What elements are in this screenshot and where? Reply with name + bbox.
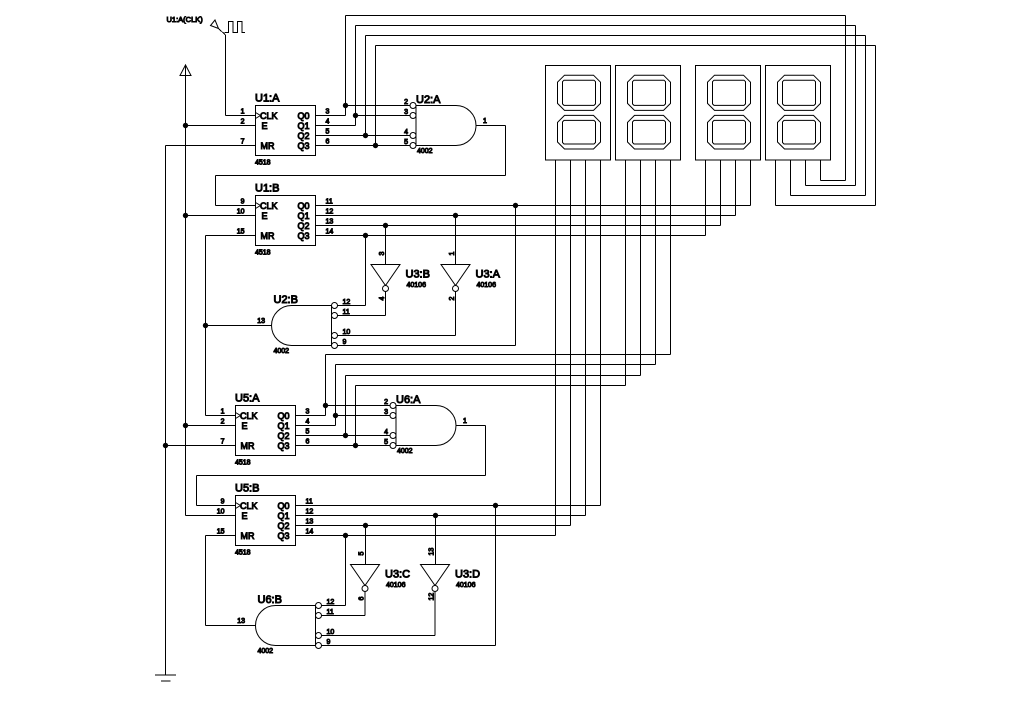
wire U2:B output pin13 <box>206 325 272 327</box>
svg-text:Q1: Q1 <box>278 421 290 431</box>
wire Q1b to U3:A input <box>455 216 457 265</box>
7-segment display 4 body <box>766 66 831 161</box>
svg-text:6: 6 <box>359 597 366 601</box>
wire U1:B MR to U2:B output <box>206 235 256 237</box>
wire U5:A Q2 to U6:A pin4 <box>296 435 391 437</box>
wire U5:A Q1 to U6:A pin3 and display2 <box>296 425 336 427</box>
display 2 seven-segment digit outline <box>628 75 671 110</box>
node U2:B output junction <box>203 323 208 328</box>
svg-text:13: 13 <box>306 519 314 526</box>
wire U5:A Q3 to U6:A pin5 <box>296 445 391 447</box>
svg-text:U3:D: U3:D <box>455 569 480 581</box>
node Q0d junction <box>493 503 498 508</box>
junction power/U1:A E <box>183 123 188 128</box>
wire Q3b to U2:B pin12 <box>365 236 367 306</box>
wire U2:A output pin1 loop to U1:B CLK <box>476 125 506 127</box>
wire U5:B Q0 pin11 to display1 <box>296 505 601 507</box>
svg-text:13: 13 <box>429 548 436 556</box>
svg-text:13: 13 <box>237 618 245 625</box>
svg-text:1: 1 <box>221 409 225 416</box>
svg-text:40106: 40106 <box>456 582 476 589</box>
svg-text:40106: 40106 <box>386 582 406 589</box>
display 3 seven-segment digit outline <box>708 75 751 110</box>
svg-text:U6:B: U6:B <box>258 594 282 606</box>
node Q2a junction <box>363 133 368 138</box>
svg-text:40106: 40106 <box>477 282 497 289</box>
svg-text:13: 13 <box>326 219 334 226</box>
svg-text:9: 9 <box>241 199 245 206</box>
svg-text:Q2: Q2 <box>298 131 310 141</box>
svg-text:10: 10 <box>327 629 335 636</box>
node Q3c junction <box>353 443 358 448</box>
wire U2:B out down to U5:A CLK <box>205 326 207 416</box>
svg-text:E: E <box>262 121 268 131</box>
inverter U3:C 40106 <box>351 565 380 586</box>
svg-text:U5:B: U5:B <box>235 483 259 495</box>
wire U1:A pin E <box>186 125 256 127</box>
inverter U3:B 40106 <box>371 265 400 286</box>
wire U3:D output pin12 to U6:B pin10 <box>434 592 436 636</box>
wire U1:B pin E <box>186 215 256 217</box>
svg-text:4518: 4518 <box>255 250 271 257</box>
svg-text:U1:A(CLK): U1:A(CLK) <box>167 15 204 24</box>
wire U1:B Q1 pin12 to display3 <box>316 215 736 217</box>
svg-text:4: 4 <box>384 429 388 436</box>
wire clock to U1:A CLK <box>219 29 226 36</box>
svg-text:12: 12 <box>326 209 334 216</box>
svg-text:U3:A: U3:A <box>476 269 501 281</box>
wire Q3c up to display2 <box>355 386 357 446</box>
node Q3d junction <box>343 533 348 538</box>
wire U5:B Q2 pin13 to display1 <box>296 525 571 527</box>
svg-text:Q0: Q0 <box>278 411 290 421</box>
wire U5:B Q1 pin12 to display1 <box>296 515 586 517</box>
7-segment display 3 body <box>696 66 761 161</box>
svg-text:MR: MR <box>261 141 275 151</box>
svg-text:CLK: CLK <box>240 411 258 421</box>
svg-text:MR: MR <box>241 531 255 541</box>
node Q1c junction <box>333 413 338 418</box>
svg-text:Q3: Q3 <box>298 141 310 151</box>
svg-text:15: 15 <box>217 529 225 536</box>
wire U1:A pin MR <box>166 145 256 147</box>
power terminal symbol <box>180 65 191 76</box>
svg-text:11: 11 <box>343 309 350 316</box>
wire U1:A Q2 to U2:A pin4 <box>316 135 411 137</box>
display 1 seven-segment digit outline <box>558 75 601 110</box>
svg-text:E: E <box>242 511 248 521</box>
svg-text:11: 11 <box>327 609 334 616</box>
inverter U3:A 40106 <box>441 265 470 286</box>
svg-text:4: 4 <box>306 419 310 426</box>
wire U5:A Q0 to U6:A pin2 and display2 <box>296 415 326 417</box>
node Q0a junction <box>343 103 348 108</box>
svg-text:9: 9 <box>343 339 347 346</box>
node Q2d junction <box>363 523 368 528</box>
svg-text:12: 12 <box>429 593 436 601</box>
wire Q1d to U3:D input <box>435 516 437 565</box>
wire power rail vertical x=185 <box>185 65 187 516</box>
node Q3a junction <box>373 143 378 148</box>
svg-text:MR: MR <box>241 441 255 451</box>
svg-text:1: 1 <box>449 252 456 256</box>
svg-text:4518: 4518 <box>255 160 271 167</box>
svg-text:U1:A: U1:A <box>255 93 280 105</box>
node Q2c junction <box>343 433 348 438</box>
wire U1:B Q2 pin13 to display3 <box>316 225 721 227</box>
wire U1:B Q3 pin14 to display3 <box>316 235 706 237</box>
wire Q1c up to display2 <box>335 365 337 416</box>
svg-text:U3:B: U3:B <box>406 269 430 281</box>
svg-text:2: 2 <box>241 119 245 126</box>
svg-text:9: 9 <box>327 639 331 646</box>
svg-text:2: 2 <box>404 99 408 106</box>
display 4 seven-segment digit outline <box>778 75 821 110</box>
ground rail vertical x=165 <box>165 146 167 676</box>
svg-text:U3:C: U3:C <box>385 569 410 581</box>
svg-text:1: 1 <box>463 418 467 425</box>
svg-text:3: 3 <box>404 109 408 116</box>
wire Q3d to U6:B pin12 <box>345 536 347 606</box>
junction ground rail / U5:A MR <box>163 443 168 448</box>
svg-text:Q0: Q0 <box>278 501 290 511</box>
svg-text:4: 4 <box>326 119 330 126</box>
svg-text:U5:A: U5:A <box>235 393 260 405</box>
svg-text:Q2: Q2 <box>278 521 290 531</box>
node Q1d junction <box>433 513 438 518</box>
node Q2b junction <box>383 223 388 228</box>
wire Q3 rail to display4 <box>375 46 377 146</box>
svg-text:Q3: Q3 <box>298 231 310 241</box>
svg-text:4002: 4002 <box>417 148 433 155</box>
svg-text:3: 3 <box>326 109 330 116</box>
svg-text:4: 4 <box>379 297 386 301</box>
svg-text:Q1: Q1 <box>278 511 290 521</box>
svg-text:15: 15 <box>237 229 245 236</box>
wire U1:A Q1 to U2:A pin3 and rail <box>316 125 356 127</box>
svg-text:10: 10 <box>237 209 245 216</box>
svg-text:3: 3 <box>379 252 386 256</box>
wire U1:A Q3 to U2:A pin5 <box>316 145 411 147</box>
svg-text:Q0: Q0 <box>298 201 310 211</box>
svg-text:CLK: CLK <box>260 111 278 121</box>
wire Q0c up to display2 <box>325 355 327 406</box>
node Q1b junction <box>453 213 458 218</box>
svg-text:Q1: Q1 <box>298 211 310 221</box>
wire U5:B Q3 pin14 to display1 <box>296 535 556 537</box>
svg-text:Q1: Q1 <box>298 121 310 131</box>
wire U6:B output pin13 <box>206 625 256 627</box>
svg-text:9: 9 <box>221 499 225 506</box>
svg-text:12: 12 <box>327 599 335 606</box>
svg-text:5: 5 <box>404 139 408 146</box>
wire U1:B Q0 pin11 to display3 <box>316 205 751 207</box>
wire U1:A Q0 to U2:A pin2 and top rail <box>316 115 346 117</box>
node Q0c junction <box>323 403 328 408</box>
wire U3:B output pin4 to U2:B pin11 <box>385 292 387 316</box>
svg-text:4002: 4002 <box>397 448 413 455</box>
svg-text:11: 11 <box>326 199 333 206</box>
svg-text:5: 5 <box>384 439 388 446</box>
svg-text:12: 12 <box>343 299 351 306</box>
svg-text:Q0: Q0 <box>298 111 310 121</box>
svg-text:1: 1 <box>241 109 245 116</box>
ground symbol <box>155 674 176 676</box>
inverter U3:D 40106 <box>421 565 450 586</box>
svg-text:4518: 4518 <box>235 550 251 557</box>
svg-text:Q3: Q3 <box>278 531 290 541</box>
wire U6:A output pin1 loop to U5:B CLK <box>456 425 486 427</box>
svg-text:U1:B: U1:B <box>255 183 279 195</box>
svg-text:7: 7 <box>241 139 245 146</box>
svg-text:MR: MR <box>261 231 275 241</box>
wire Q2 rail to display4 <box>365 36 367 136</box>
junction power/U1:B E <box>183 213 188 218</box>
svg-text:4002: 4002 <box>274 348 290 355</box>
svg-text:14: 14 <box>326 229 334 236</box>
svg-text:U2:B: U2:B <box>274 294 298 306</box>
junction power/U5:A E <box>183 423 188 428</box>
svg-text:4: 4 <box>404 129 408 136</box>
svg-text:E: E <box>242 421 248 431</box>
svg-text:2: 2 <box>384 399 388 406</box>
svg-text:Q2: Q2 <box>298 221 310 231</box>
wire Q1 rail to display4 <box>355 26 357 116</box>
svg-text:11: 11 <box>306 499 313 506</box>
svg-text:4518: 4518 <box>235 460 251 467</box>
svg-text:2: 2 <box>221 419 225 426</box>
svg-text:1: 1 <box>483 118 487 125</box>
7-segment display 1 body <box>546 66 611 161</box>
wire U3:A output pin2 to U2:B pin10 <box>455 292 457 336</box>
svg-text:CLK: CLK <box>260 201 278 211</box>
svg-text:CLK: CLK <box>240 501 258 511</box>
svg-text:5: 5 <box>359 552 366 556</box>
svg-text:4002: 4002 <box>258 648 274 655</box>
svg-text:Q2: Q2 <box>278 431 290 441</box>
svg-text:E: E <box>262 211 268 221</box>
wire U5:A pin MR <box>166 445 236 447</box>
wire Q2b to U3:B input <box>385 226 387 265</box>
7-segment display 2 body <box>616 66 681 161</box>
svg-text:6: 6 <box>326 139 330 146</box>
node Q1a junction <box>353 113 358 118</box>
svg-text:U6:A: U6:A <box>396 394 421 406</box>
svg-text:14: 14 <box>306 529 314 536</box>
svg-text:2: 2 <box>449 297 456 301</box>
svg-text:3: 3 <box>384 409 388 416</box>
svg-text:6: 6 <box>306 439 310 446</box>
svg-text:12: 12 <box>306 509 314 516</box>
svg-text:10: 10 <box>217 509 225 516</box>
svg-text:7: 7 <box>221 439 225 446</box>
wire Q2d to U3:C input <box>365 526 367 565</box>
wire Q0 rail to display4 <box>345 16 347 106</box>
wire Q0d to U6:B pin9 <box>495 506 497 646</box>
svg-text:3: 3 <box>306 409 310 416</box>
node Q0b junction <box>513 203 518 208</box>
wire Q0b to U2:B pin9 <box>515 206 517 346</box>
wire Q2c up to display2 <box>345 376 347 436</box>
svg-text:5: 5 <box>326 129 330 136</box>
svg-text:10: 10 <box>343 329 351 336</box>
svg-text:13: 13 <box>257 318 265 325</box>
svg-text:U2:A: U2:A <box>416 94 441 106</box>
svg-text:5: 5 <box>306 429 310 436</box>
wire U3:C output pin6 to U6:B pin11 <box>364 592 366 616</box>
wire power to U5:B pin E <box>186 515 236 517</box>
wire U5:A pin E <box>186 425 236 427</box>
node Q3b junction <box>363 233 368 238</box>
svg-text:Q3: Q3 <box>278 441 290 451</box>
wire U5:B MR to U6:B output <box>206 535 236 537</box>
svg-text:40106: 40106 <box>407 282 427 289</box>
